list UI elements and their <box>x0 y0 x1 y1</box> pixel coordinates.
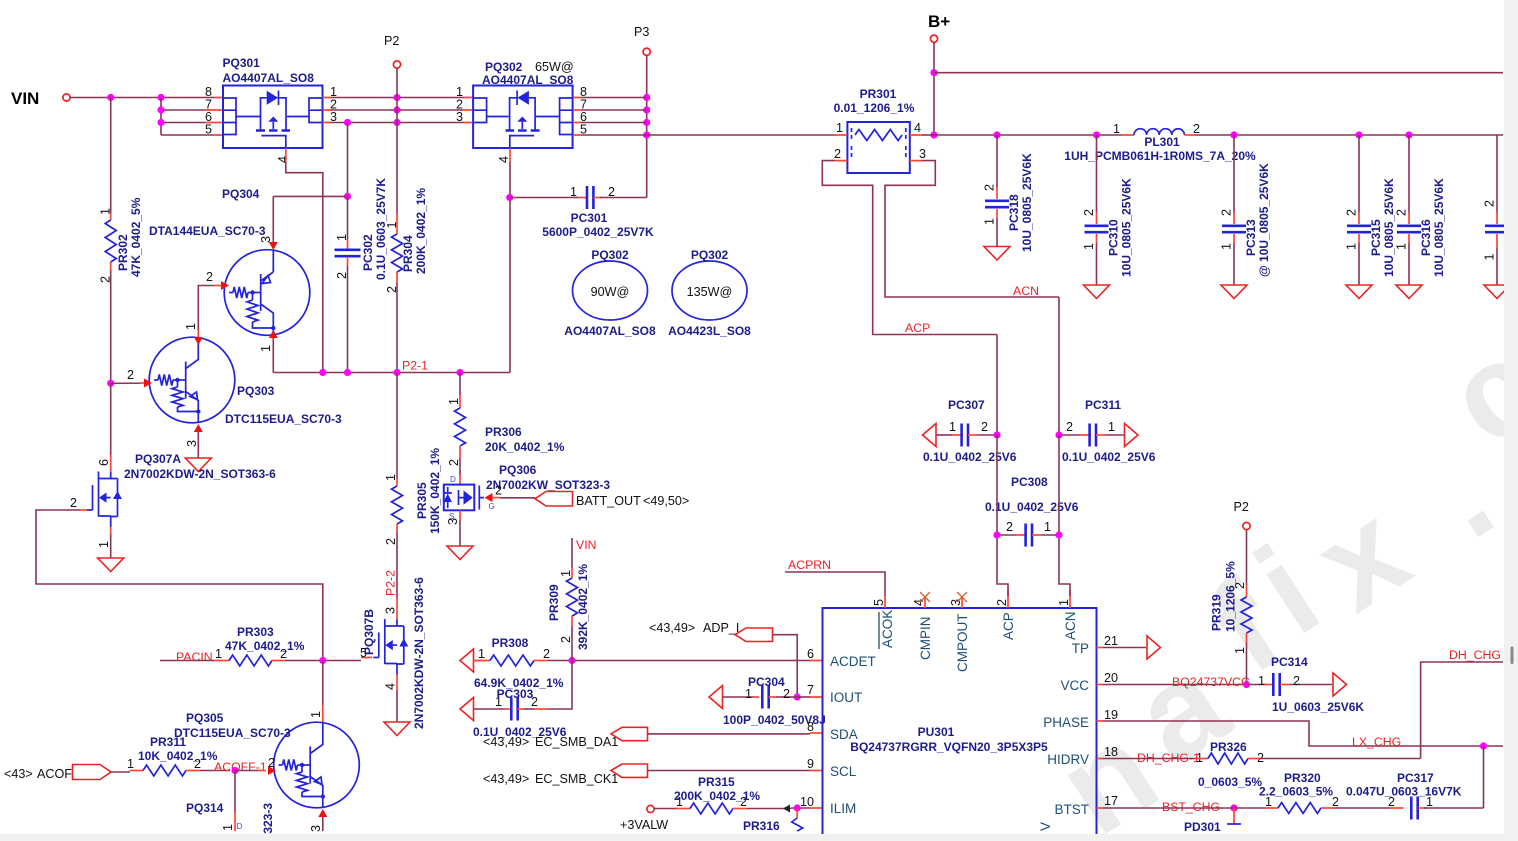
wire B+ rail right <box>934 72 1503 74</box>
junction <box>643 119 650 126</box>
junction <box>993 431 1000 438</box>
svg-text:1: 1 <box>184 323 198 330</box>
svg-text:1: 1 <box>836 121 843 135</box>
svg-text:4: 4 <box>384 683 398 690</box>
label PR301 <box>834 87 915 115</box>
svg-text:8: 8 <box>807 720 814 734</box>
svg-text:SCL: SCL <box>830 764 857 779</box>
svg-text:PC301: PC301 <box>571 211 608 225</box>
wire ACP down to PC307 row <box>996 335 998 436</box>
svg-text:1: 1 <box>1233 647 1247 654</box>
svg-text:2: 2 <box>206 270 213 284</box>
svg-text:ACPRN: ACPRN <box>788 558 831 572</box>
svg-text:<49,50>: <49,50> <box>643 494 689 508</box>
pin labels PC316 <box>1395 209 1409 250</box>
svg-text:PR320: PR320 <box>1284 771 1321 785</box>
wire ACN down to PC311 row <box>1058 297 1060 435</box>
svg-text:3: 3 <box>446 518 460 525</box>
svg-text:ACP: ACP <box>1001 612 1016 640</box>
wire BST_CHG segment <box>1158 807 1266 809</box>
svg-text:2: 2 <box>1082 209 1096 216</box>
wire main rail to PR301 <box>647 134 836 136</box>
label PR306 <box>485 425 565 454</box>
label PR302 <box>116 197 143 277</box>
svg-text:3: 3 <box>919 147 926 161</box>
svg-text:47K_0402_1%: 47K_0402_1% <box>225 639 305 653</box>
svg-text:6: 6 <box>807 647 814 661</box>
svg-text:1U_0603_25V6K: 1U_0603_25V6K <box>1272 700 1364 714</box>
pin numbers right PU301 <box>1104 634 1118 808</box>
svg-text:PQ304: PQ304 <box>222 187 260 201</box>
svg-text:1: 1 <box>949 420 956 434</box>
pin numbers PC317 <box>1388 795 1433 809</box>
svg-text:PR316: PR316 <box>743 819 780 833</box>
svg-text:PQ302: PQ302 <box>591 248 629 262</box>
svg-text:1: 1 <box>127 757 134 771</box>
net text ACOFF <box>4 767 80 781</box>
terminal P2 <box>393 61 400 68</box>
transistor PQ303 DTC115EUA_SC70-3 (NPN) <box>149 337 235 423</box>
wire PQ302 right pins to P3 <box>573 98 581 136</box>
pin names left PU301 <box>830 654 876 816</box>
scrollbar right track <box>1504 0 1518 841</box>
transistor PQ304 DTA144EUA_SC70-3 (PNP) <box>224 250 310 336</box>
label PQ307B <box>362 577 426 729</box>
base wire PQ303 <box>111 382 140 384</box>
svg-text:PQ314: PQ314 <box>186 801 224 815</box>
pin numbers PC304 <box>745 687 790 701</box>
net text EC_SMB_CK1 <box>483 772 618 786</box>
gate wire PQ307A <box>87 509 93 511</box>
transistor PQ306 2N7002KW_SOT323-3 <box>444 485 485 511</box>
wire PC302 column <box>347 196 349 240</box>
svg-text:2: 2 <box>1066 420 1073 434</box>
label PC310 <box>1107 178 1134 277</box>
pin numbers top PU301 <box>872 599 1071 606</box>
resistor PR306 20K <box>455 408 466 446</box>
junction <box>319 369 326 376</box>
svg-text:4: 4 <box>497 156 511 163</box>
svg-text:<43,49>: <43,49> <box>483 735 529 749</box>
svg-text:PC318: PC318 <box>1007 194 1021 231</box>
svg-text:@ 10U_0805_25V6K: @ 10U_0805_25V6K <box>1257 163 1271 277</box>
wire PR301 pin2 ACP start <box>822 161 997 335</box>
connector ACOFF <box>73 765 112 780</box>
svg-text:AO4407AL_SO8: AO4407AL_SO8 <box>482 73 574 87</box>
watermark <box>1033 310 1518 841</box>
svg-text:V: V <box>1038 822 1053 831</box>
junction <box>319 657 326 664</box>
svg-text:1: 1 <box>335 234 349 241</box>
svg-text:PC304: PC304 <box>748 675 785 689</box>
wire IOUT pin7 <box>791 696 797 698</box>
svg-text:PC313: PC313 <box>1244 219 1258 256</box>
no-connect X pin4 <box>920 592 930 602</box>
junction <box>157 119 164 126</box>
svg-text:90W@: 90W@ <box>591 285 630 299</box>
svg-text:AO4407AL_SO8: AO4407AL_SO8 <box>564 324 656 338</box>
collector wire PQ303 to PQ304 base <box>194 337 203 345</box>
svg-text:3: 3 <box>456 110 463 124</box>
resistor PR309 392K <box>567 578 578 616</box>
wire PR320 to PC317 <box>1334 807 1390 809</box>
svg-text:5600P_0402_25V7K: 5600P_0402_25V7K <box>542 225 654 239</box>
svg-text:DTC115EUA_SC70-3: DTC115EUA_SC70-3 <box>225 412 342 426</box>
capacitor PC313 10U_0805_25V6K <box>1222 135 1246 285</box>
svg-text:1: 1 <box>1057 599 1071 606</box>
svg-text:HIDRV: HIDRV <box>1047 752 1089 767</box>
pin labels PR302 <box>99 208 113 283</box>
svg-text:2: 2 <box>1220 209 1234 216</box>
svg-text:1: 1 <box>259 345 273 352</box>
ground under PC316 <box>1396 285 1422 299</box>
label PR311 <box>138 735 218 763</box>
label PR320 <box>1259 771 1333 799</box>
wire PQ301 pin3 branch down <box>347 123 349 197</box>
svg-text:P2: P2 <box>1234 500 1249 514</box>
capacitor PC304 100P triangle <box>709 686 723 709</box>
resistor PR315 200K <box>690 803 733 814</box>
svg-text:PQ302: PQ302 <box>691 248 729 262</box>
part option PQ302 90W AO4407AL_SO8 <box>564 248 656 338</box>
svg-text:10U_0805_25V6K: 10U_0805_25V6K <box>1120 178 1134 277</box>
label PC316 <box>1419 178 1446 277</box>
svg-text:2: 2 <box>384 538 398 545</box>
body diode of PQ301 <box>267 91 279 105</box>
svg-text:2: 2 <box>495 484 502 498</box>
svg-text:SDA: SDA <box>830 727 858 742</box>
wire ADP_I to IOUT junction <box>773 635 798 697</box>
svg-text:2: 2 <box>995 599 1009 606</box>
svg-text:2N7002KW_SOT323-3: 2N7002KW_SOT323-3 <box>486 478 610 492</box>
node VIN <box>11 89 39 108</box>
svg-text:1: 1 <box>1483 253 1497 260</box>
svg-text:AO4407AL_SO8: AO4407AL_SO8 <box>223 71 315 85</box>
pin1 arrow PQ304 <box>269 330 278 338</box>
gate arrow PQ306 <box>485 493 493 502</box>
inductor PL301 <box>1122 129 1196 135</box>
svg-text:VIN: VIN <box>11 89 39 108</box>
svg-text:1: 1 <box>447 398 461 405</box>
junction <box>993 131 1000 138</box>
wire main rail B+ to PL301 <box>934 134 1122 136</box>
svg-text:PR311: PR311 <box>150 735 186 749</box>
svg-text:17: 17 <box>1104 794 1118 808</box>
junction <box>794 804 801 811</box>
svg-text:10U_0805_25V6K: 10U_0805_25V6K <box>1382 178 1396 277</box>
terminal B+ <box>930 35 937 42</box>
connector BATT_OUT <box>535 492 573 507</box>
svg-text:3: 3 <box>384 607 398 614</box>
label PQ301 <box>223 56 315 85</box>
transistor PQ302 AO4407AL_SO8 <box>473 86 573 149</box>
arrow into ILIM net <box>783 805 790 813</box>
svg-text:1: 1 <box>983 218 997 225</box>
svg-text:3: 3 <box>949 599 963 606</box>
wire TP pin21 <box>1097 647 1104 649</box>
junction <box>344 369 351 376</box>
svg-text:200K_0402_1%: 200K_0402_1% <box>674 789 760 803</box>
wire ILIM pin10 <box>791 807 810 809</box>
svg-text:PQ302: PQ302 <box>485 60 523 74</box>
terminal +3VALW <box>647 805 654 812</box>
svg-text:PR305: PR305 <box>415 482 429 519</box>
label PQ303 <box>225 384 342 426</box>
label PC317 <box>1346 771 1462 799</box>
capacitor partial right edge <box>1483 135 1510 285</box>
svg-text:CMPOUT: CMPOUT <box>955 614 970 673</box>
svg-text:20K_0402_1%: 20K_0402_1% <box>485 440 565 454</box>
wire PR301 pin4 to B+ rail <box>922 134 934 136</box>
svg-text:2: 2 <box>981 420 988 434</box>
capacitor PC318 10U_0805_25V6K <box>985 135 1009 247</box>
pin3 arrow PQ304 <box>269 242 278 250</box>
junction <box>107 380 114 387</box>
pin numbers PQ301 <box>205 85 337 163</box>
junction <box>393 119 400 126</box>
svg-text:9: 9 <box>807 757 814 771</box>
resistor PR304 200K <box>392 234 403 272</box>
junction <box>157 106 164 113</box>
svg-text:2N7002KDW-2N_SOT363-6: 2N7002KDW-2N_SOT363-6 <box>412 577 426 729</box>
scrollbar thumb <box>1511 647 1514 665</box>
label PU301 <box>850 725 1048 754</box>
wire P2 down to PR319 <box>1246 530 1248 585</box>
transistor PQ307A 2N7002KDW (mosfet A) <box>93 472 123 528</box>
junction <box>1480 742 1487 749</box>
wire SCL pin9 <box>648 770 811 772</box>
wire VCC pin20 <box>1097 684 1104 686</box>
pin numbers PC314 <box>1258 674 1300 688</box>
junction <box>794 693 801 700</box>
svg-text:PC302: PC302 <box>361 234 375 271</box>
junction <box>456 369 463 376</box>
pin names top PU301 vertical <box>879 610 1078 672</box>
svg-text:PR304: PR304 <box>401 235 415 272</box>
svg-text:2: 2 <box>1193 122 1200 136</box>
svg-text:PR319: PR319 <box>1210 594 1224 631</box>
svg-text:5: 5 <box>205 123 212 137</box>
resistor PR319 10_1206 <box>1241 597 1252 633</box>
svg-text:1: 1 <box>384 474 398 481</box>
junction <box>107 94 114 101</box>
wire DH_CHG <box>1421 662 1503 759</box>
junction <box>344 119 351 126</box>
pin labels PR304 <box>385 221 399 293</box>
svg-text:PACIN: PACIN <box>176 650 213 664</box>
label PR308 <box>474 636 564 690</box>
capacitor PC302 0.1U_0603 <box>335 250 361 256</box>
scrollbar bottom track <box>0 834 1518 841</box>
label PR305 <box>415 448 442 534</box>
label PQ306 <box>486 463 610 492</box>
junction <box>1055 431 1062 438</box>
junction <box>344 193 351 200</box>
pin numbers PR301 <box>834 121 926 161</box>
svg-text:G: G <box>489 502 495 511</box>
pin numbers PC303 <box>495 695 538 709</box>
junction <box>1405 131 1412 138</box>
svg-text:ACOK: ACOK <box>880 610 895 648</box>
ground under PC313 <box>1221 285 1247 299</box>
capacitor PC303 plates <box>511 698 517 721</box>
ground under PQ303 <box>185 458 211 472</box>
label PC303 <box>473 687 567 739</box>
svg-text:ACOFF-1: ACOFF-1 <box>214 760 267 774</box>
svg-text:PR303: PR303 <box>237 625 274 639</box>
svg-text:2: 2 <box>834 147 841 161</box>
label PR315 <box>674 775 760 803</box>
pin numbers left PU301 <box>800 647 814 809</box>
svg-text:PC315: PC315 <box>1369 219 1383 256</box>
label PC308 <box>985 475 1079 514</box>
wire PR302 to PQ303 base junction <box>110 262 112 270</box>
terminal P2 lower <box>1243 522 1250 529</box>
svg-text:PC307: PC307 <box>948 398 985 412</box>
svg-text:PC317: PC317 <box>1397 771 1434 785</box>
mosfet arrow PQ307A <box>99 493 107 503</box>
wire PHASE pin19 LX_CHG <box>1097 720 1104 722</box>
capacitor PC317 0.047U <box>1390 797 1484 820</box>
wire PACIN <box>160 660 214 662</box>
junction <box>643 94 650 101</box>
label PQ305 <box>174 711 291 740</box>
wire P2 line PR305 column <box>396 373 398 479</box>
svg-text:PR326: PR326 <box>1210 740 1247 754</box>
svg-text:0.1U_0402_25V6: 0.1U_0402_25V6 <box>923 450 1017 464</box>
junction <box>393 369 400 376</box>
svg-text:0_0603_5%: 0_0603_5% <box>1198 775 1262 789</box>
wire PR304 to P2-1 rail <box>396 272 398 283</box>
emitter wire PQ303 to ground <box>194 424 203 432</box>
label PC315 <box>1369 178 1396 277</box>
pin numbers PR315 <box>676 795 747 809</box>
svg-text:PR301: PR301 <box>860 87 897 101</box>
svg-text:10_1206_5%: 10_1206_5% <box>1224 561 1238 632</box>
svg-text:2: 2 <box>983 184 997 191</box>
svg-text:1: 1 <box>1220 243 1234 250</box>
resistor PR308 64.9K triangle <box>460 649 474 672</box>
svg-text:5: 5 <box>360 646 367 660</box>
terminal P3 <box>643 48 650 55</box>
svg-text:CMPIN: CMPIN <box>918 617 933 661</box>
part option PQ302 135W AO4423L_SO8 <box>668 248 751 338</box>
resistor PR311 10K <box>143 765 186 776</box>
capacitor PC301 5600P <box>510 186 647 209</box>
pin numbers PR303 <box>215 647 287 661</box>
pin numbers PR311 <box>127 757 201 771</box>
svg-text:+3VALW: +3VALW <box>620 818 668 832</box>
ground under PQ307B <box>384 722 410 736</box>
wire PR301 pin3 ACN start <box>885 161 1059 297</box>
svg-text:6: 6 <box>97 459 111 466</box>
svg-text:VIN: VIN <box>576 538 597 552</box>
svg-text:1: 1 <box>97 541 111 548</box>
connector EC_SMB_CK1 <box>611 764 648 777</box>
svg-text:10K_0402_1%: 10K_0402_1% <box>138 749 218 763</box>
svg-text:PC311: PC311 <box>1085 398 1121 412</box>
svg-text:10U_0805_25V6K: 10U_0805_25V6K <box>1020 153 1034 252</box>
label PC304 <box>723 675 826 727</box>
svg-text:2: 2 <box>1345 209 1359 216</box>
label PC318 <box>1007 153 1034 252</box>
svg-text:3: 3 <box>185 440 199 447</box>
pin labels PC318 <box>983 184 997 225</box>
junction <box>993 531 1000 538</box>
svg-text:BQ24737VCC: BQ24737VCC <box>1172 675 1250 689</box>
svg-text:1: 1 <box>478 647 485 661</box>
junction <box>157 94 164 101</box>
wire ACPRN to pin5 <box>785 572 885 596</box>
junction <box>231 767 238 774</box>
svg-text:2: 2 <box>1483 200 1497 207</box>
svg-text:ILIM: ILIM <box>830 801 856 816</box>
pin numbers PR320 <box>1265 795 1339 809</box>
svg-text:1: 1 <box>1395 243 1409 250</box>
pin numbers PC311 <box>1066 420 1115 434</box>
junction <box>930 69 937 76</box>
svg-text:0.01_1206_1%: 0.01_1206_1% <box>834 101 915 115</box>
svg-text:150K_0402_1%: 150K_0402_1% <box>428 448 442 534</box>
svg-text:ACP: ACP <box>905 321 930 335</box>
wire BTST pin17 <box>1097 807 1104 809</box>
wire PQ301 pins 1-3 to PQ302 <box>323 98 332 123</box>
pin labels PC302 <box>335 234 349 279</box>
pin numbers PC301 <box>570 185 615 199</box>
svg-text:2N7002KDW-2N_SOT363-6: 2N7002KDW-2N_SOT363-6 <box>124 467 276 481</box>
label PQ304 <box>149 187 266 238</box>
resistor PR303 47K <box>214 655 285 666</box>
wire VIN column <box>571 538 573 568</box>
svg-text:P2-1: P2-1 <box>402 359 428 373</box>
svg-text:2: 2 <box>1293 674 1300 688</box>
wire SDA pin8 <box>648 733 811 735</box>
pin numbers PC307 <box>949 420 988 434</box>
resistor PR308 zigzag <box>490 655 534 666</box>
svg-text:PR302: PR302 <box>116 234 130 271</box>
svg-text:<43,49>: <43,49> <box>483 772 529 786</box>
svg-text:BTST: BTST <box>1054 802 1089 817</box>
svg-text:2: 2 <box>127 368 134 382</box>
resistor PR316 below <box>796 808 798 818</box>
svg-text:1UH_PCMB061H-1R0MS_7A_20%: 1UH_PCMB061H-1R0MS_7A_20% <box>1064 149 1256 163</box>
ground under PQ306 <box>447 546 473 560</box>
no-connect X pin3 <box>957 592 967 602</box>
diode PD301 stub <box>1233 808 1235 824</box>
svg-text:BST_CHG: BST_CHG <box>1162 800 1220 814</box>
svg-text:BATT_OUT: BATT_OUT <box>576 494 641 508</box>
svg-text:ACN: ACN <box>1013 284 1039 298</box>
svg-text:5: 5 <box>872 599 886 606</box>
svg-text:PQ301: PQ301 <box>223 56 261 70</box>
ground partial right edge <box>1484 285 1510 299</box>
svg-text:P3: P3 <box>634 25 649 39</box>
junction <box>930 131 937 138</box>
svg-text:1: 1 <box>1044 520 1051 534</box>
transistor PQ301 AO4407AL_SO8 <box>223 86 323 149</box>
junction <box>393 106 400 113</box>
svg-text:DTA144EUA_SC70-3: DTA144EUA_SC70-3 <box>149 224 266 238</box>
svg-text:PR315: PR315 <box>698 775 735 789</box>
resistor PR301 0.01_1206 <box>847 122 909 173</box>
capacitor PC304 plates <box>762 686 768 709</box>
wire VIN junction down to PR302 <box>110 98 112 214</box>
svg-text:D: D <box>237 822 243 831</box>
svg-text:P2-2: P2-2 <box>384 570 398 596</box>
svg-text:3: 3 <box>259 236 273 243</box>
pin labels PR305 <box>384 474 398 545</box>
svg-text:D: D <box>450 475 456 484</box>
